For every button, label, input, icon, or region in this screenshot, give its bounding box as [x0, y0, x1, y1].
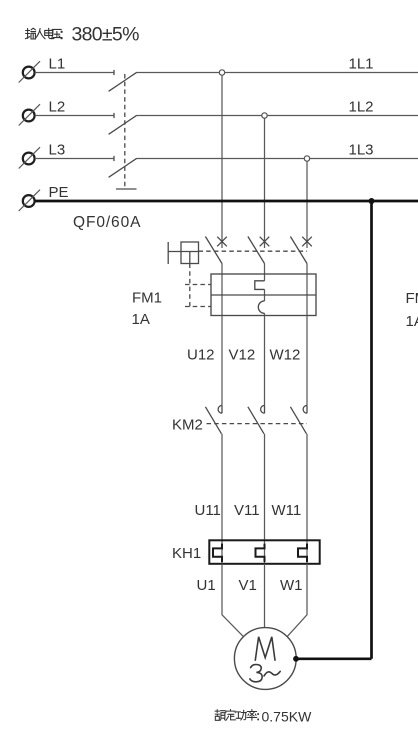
node junction on L2 — [262, 113, 267, 118]
svg-text:U12: U12 — [187, 347, 215, 364]
SECTION: motor — [222, 564, 307, 637]
wire W through KH1 — [306, 540, 308, 564]
wire V lower in body — [264, 313, 266, 315]
wire U through KH1 — [221, 540, 223, 564]
terminal PE — [23, 195, 35, 207]
label 压 — [52, 29, 62, 38]
wire W1 to motor — [287, 564, 307, 637]
wire U11 KM2 to KH1 — [221, 434, 223, 541]
contactor KM2 pole V fixed hook — [261, 405, 265, 413]
terminal L1 slash — [19, 61, 40, 82]
wire U through body — [221, 274, 223, 316]
wire V blade to body — [264, 264, 266, 275]
label ： — [257, 713, 259, 720]
terminal L1 — [23, 67, 35, 79]
label 入 — [35, 29, 45, 39]
svg-text:L3: L3 — [49, 142, 66, 159]
label 率 — [247, 710, 257, 721]
motor M1 circle — [234, 628, 296, 690]
wire L1 right segment (1L1) — [137, 72, 418, 74]
wire PE bus (thick) — [35, 200, 418, 203]
SECTION: title — [25, 28, 62, 39]
svg-text:QF0/60A: QF0/60A — [73, 214, 141, 231]
breaker QF0 pole L3 contact tick — [113, 156, 115, 161]
contactor KM2 pole W blade — [290, 407, 306, 434]
label 功 — [236, 710, 246, 720]
svg-text:U11: U11 — [195, 502, 221, 519]
thermal relay KH1 body — [209, 540, 319, 564]
SECTION: FM1 — [168, 237, 312, 307]
wire V1 to motor — [264, 564, 266, 628]
wire drop U from L1 — [221, 73, 223, 249]
wire L2 right segment (1L2) — [137, 115, 418, 117]
svg-text:U1: U1 — [197, 577, 216, 594]
SECTION: KH1 — [222, 540, 307, 564]
motor text 3 — [250, 664, 262, 681]
breaker QF0 pole L1 blade — [109, 72, 137, 91]
wire U1 to motor — [222, 564, 243, 637]
node junction PE/drop — [369, 198, 375, 204]
breaker QF0 pole L3 blade — [109, 158, 137, 177]
breaker FM1 thermal release (square jog on V) — [255, 281, 265, 290]
svg-text:W1: W1 — [280, 577, 303, 594]
terminal L3 — [23, 153, 35, 165]
breaker FM1 operator inner stem — [189, 252, 191, 264]
breaker FM1 pole U x-contact — [217, 237, 227, 247]
wire V12 down to KM2 — [264, 316, 266, 406]
wire PE to motor (thick) — [296, 657, 372, 660]
wire W through body — [306, 274, 308, 316]
wire U blade to body — [221, 264, 223, 275]
breaker FM1 pole W blade — [290, 237, 307, 264]
svg-text:L1: L1 — [49, 56, 66, 73]
SECTION: phase lines — [35, 73, 418, 159]
SECTION: terminals — [23, 67, 35, 207]
svg-text:380±5%: 380±5% — [72, 24, 140, 46]
wire L3 right segment (1L3) — [137, 158, 418, 160]
wire L1 left segment — [35, 72, 114, 74]
thermal relay KH1 heater W — [298, 544, 307, 562]
SECTION: bottom label — [215, 710, 259, 721]
breaker FM1 trip link vertical (dashed) — [189, 264, 191, 307]
wire U12 down to KM2 — [221, 316, 223, 406]
breaker FM1 pole U blade — [205, 237, 222, 264]
contactor KM2 pole W fixed hook — [303, 405, 307, 413]
wire L2 left segment — [35, 115, 114, 117]
wire V between releases — [264, 289, 266, 301]
breaker FM1 linkage (dashed horizontal) — [199, 250, 308, 252]
svg-text:PE: PE — [49, 184, 69, 201]
terminal L3 slash — [19, 147, 40, 168]
wire L3 left segment — [35, 158, 114, 160]
wire V through KH1 — [264, 540, 266, 564]
node junction motor frame — [293, 656, 299, 662]
svg-text:KH1: KH1 — [172, 545, 201, 562]
breaker QF0 linkage (dashed) — [124, 74, 126, 189]
breaker FM1 magnetic release (half circle on V) — [258, 301, 264, 313]
wire V11 KM2 to KH1 — [264, 434, 266, 541]
label 额 (rated power char 1) — [215, 710, 225, 721]
label 电 — [45, 28, 54, 38]
breaker QF0 pole L1 contact tick — [113, 70, 115, 75]
breaker FM1 body divider — [211, 294, 316, 296]
motor letter M — [255, 637, 275, 660]
svg-text:FM1: FM1 — [132, 290, 162, 307]
breaker FM1 operator end tick — [167, 242, 169, 264]
svg-text:1L2: 1L2 — [349, 99, 374, 116]
SECTION: drops — [222, 73, 307, 249]
breaker FM1 operator box — [181, 242, 199, 264]
svg-text:1A: 1A — [406, 313, 418, 330]
wire W blade to body — [306, 264, 308, 275]
svg-text:1L1: 1L1 — [349, 56, 374, 73]
svg-text:1A: 1A — [132, 311, 150, 328]
thermal relay KH1 heater V — [256, 544, 265, 562]
svg-text:V1: V1 — [239, 577, 257, 594]
label ： — [61, 31, 63, 39]
wire W11 KM2 to KH1 — [306, 434, 308, 541]
breaker FM1 body rectangle — [211, 274, 316, 316]
svg-text:0.75KW: 0.75KW — [262, 709, 313, 725]
breaker FM1 trip link to magnetic (dashed) — [185, 306, 211, 308]
label 输 (input voltage title char 1) — [25, 28, 35, 39]
breaker QF0 linkage end bar — [116, 188, 137, 190]
wire drop V from L2 — [264, 116, 266, 249]
terminal L2 — [23, 110, 35, 122]
contactor KM2 pole V blade — [248, 407, 264, 434]
breaker FM1 trip link to thermal (dashed) — [185, 284, 211, 286]
svg-text:W11: W11 — [272, 502, 302, 519]
svg-text:W12: W12 — [270, 347, 301, 364]
wire PE drop right (thick) — [370, 201, 373, 659]
thermal relay KH1 heater U — [213, 544, 222, 562]
breaker QF0 pole L2 blade — [109, 115, 137, 134]
SECTION: PE thick run — [35, 201, 418, 659]
svg-text:KM2: KM2 — [172, 417, 203, 434]
motor text ~ — [264, 671, 280, 676]
svg-text:1L3: 1L3 — [349, 142, 374, 159]
SECTION: breaker QF0 — [109, 70, 137, 189]
wire W12 down to KM2 — [306, 316, 308, 406]
contactor KM2 pole U blade — [205, 407, 221, 434]
breaker FM1 pole V x-contact — [260, 237, 270, 247]
terminal L2 slash — [19, 104, 40, 125]
wire drop W from L3 — [306, 159, 308, 249]
breaker FM1 operator lever line — [168, 251, 198, 253]
breaker FM1 pole V blade — [248, 237, 265, 264]
breaker FM1 pole W x-contact — [302, 237, 312, 247]
node junction on L3 — [304, 156, 309, 161]
svg-text:L2: L2 — [49, 99, 66, 116]
contactor KM2 pole U fixed hook — [218, 405, 222, 413]
svg-text:FM1: FM1 — [406, 290, 418, 307]
breaker QF0 pole L2 contact tick — [113, 113, 115, 118]
wire V upper in body — [264, 274, 266, 281]
terminal PE slash — [19, 190, 40, 211]
svg-text:V12: V12 — [229, 347, 256, 364]
SECTION: KM2 — [222, 316, 307, 406]
node junction on L1 — [219, 70, 224, 75]
svg-text:V11: V11 — [234, 502, 260, 519]
contactor KM2 linkage (dashed) — [207, 423, 308, 425]
label 定 — [226, 710, 236, 721]
